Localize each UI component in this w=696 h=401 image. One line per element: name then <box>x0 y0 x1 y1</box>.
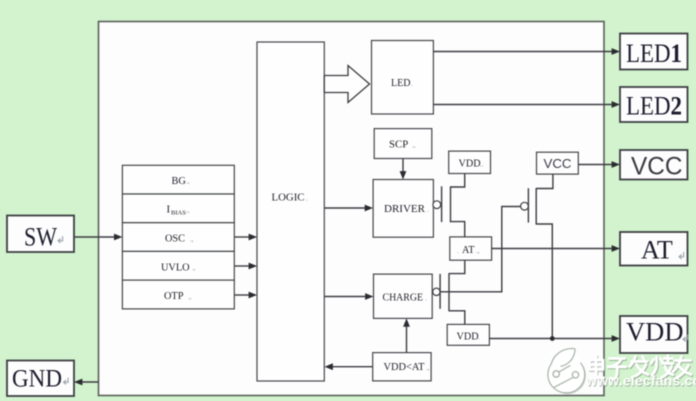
svg-text:..: .. <box>480 161 484 169</box>
svg-text:SCP: SCP <box>389 139 408 151</box>
svg-text:VDD<AT: VDD<AT <box>384 362 426 373</box>
node VDD top inner <box>449 151 491 173</box>
block LED <box>372 41 434 115</box>
svg-text:.: . <box>427 206 429 214</box>
wire SCP to DRIVER <box>402 159 404 174</box>
block CHARGE <box>374 274 433 318</box>
svg-text:.: . <box>306 195 308 203</box>
svg-text:.: . <box>425 294 427 302</box>
wire LOGIC to DRIVER <box>324 207 366 209</box>
transistor Q1 gate bubble <box>433 201 441 209</box>
block UVLO <box>122 251 234 280</box>
svg-text:.,: ., <box>192 264 196 272</box>
transistor Q1 channel <box>450 186 452 222</box>
port VCC <box>620 150 688 181</box>
port LED1 <box>620 34 688 70</box>
svg-text:VDD: VDD <box>626 318 684 347</box>
svg-text:.: . <box>457 247 459 255</box>
svg-text:GND: GND <box>12 364 62 393</box>
block LOGIC <box>257 42 324 381</box>
svg-text:.,: ., <box>186 178 190 186</box>
logo trace upper <box>559 365 571 372</box>
block DRIVER <box>373 180 433 238</box>
block BG <box>122 165 234 194</box>
wire AT node to port AT <box>492 248 613 250</box>
block SCP <box>374 129 432 159</box>
logo trace lower <box>553 377 573 387</box>
wire VDD-AT comparator to LOGIC <box>331 366 373 368</box>
svg-text:AT: AT <box>641 236 673 265</box>
transistor Q3 channel <box>535 188 537 225</box>
svg-text:I: I <box>167 204 171 216</box>
logo pad left <box>553 371 559 377</box>
svg-text:.,: ., <box>186 207 190 215</box>
transistor Q3 gate bubble <box>521 202 529 210</box>
transistor Q2 source lead to VDD node <box>449 311 465 325</box>
svg-text:LOGIC: LOGIC <box>272 192 305 204</box>
port GND <box>7 361 74 397</box>
block OTP <box>122 280 234 309</box>
wire SW to analog stack <box>74 236 115 238</box>
watermark brand characters dian zi fa shao you <box>590 356 692 381</box>
svg-text:SW: SW <box>24 223 57 252</box>
wire LOGIC to CHARGE <box>324 296 366 298</box>
svg-text:LED2: LED2 <box>626 92 682 121</box>
svg-text:BG: BG <box>172 176 187 187</box>
svg-text:AT: AT <box>462 245 475 256</box>
svg-text:.: . <box>411 80 413 88</box>
svg-text:VDD: VDD <box>457 332 479 343</box>
transistor Q2 drain lead to AT node <box>449 260 465 273</box>
svg-text:LED1: LED1 <box>626 39 682 68</box>
port VDD <box>620 316 688 353</box>
wire UVLO to LOGIC <box>234 265 250 267</box>
watermark logo circle <box>548 349 586 395</box>
wire OSC to LOGIC <box>234 236 250 238</box>
wire LED to port LED1 <box>433 51 613 53</box>
transistor Q3 source lead down to VDD rail <box>536 224 552 339</box>
svg-text:BIAS: BIAS <box>171 210 186 217</box>
wire Q2 gate to Q3 gate net <box>440 207 520 292</box>
chip outline main rectangle <box>99 22 605 396</box>
logo pad right <box>572 372 578 378</box>
svg-text:OSC: OSC <box>165 234 185 245</box>
block VDD-less-than-AT comparator <box>373 353 431 381</box>
svg-text:www.elecfans.com: www.elecfans.com <box>585 373 696 389</box>
wire LED to port LED2 <box>433 104 613 106</box>
transistor Q2 gate bubble <box>433 288 440 295</box>
logo leaf tip <box>555 356 580 363</box>
transistor Q2 channel <box>448 273 450 311</box>
wire OTP to LOGIC <box>234 294 250 296</box>
svg-text:.,: ., <box>190 236 194 244</box>
svg-text:UVLO: UVLO <box>161 262 190 273</box>
wire VDD-AT comparator to CHARGE <box>406 325 408 353</box>
svg-text:VDD: VDD <box>459 159 481 170</box>
transistor Q2 gate bar <box>439 274 441 309</box>
transistor Q1 gate bar <box>441 186 443 222</box>
svg-text:CHARGE: CHARGE <box>383 292 424 303</box>
transistor Q1 drain lead to VDD node <box>451 174 465 188</box>
wire VDD node to port VDD <box>489 338 613 340</box>
port AT <box>620 232 688 266</box>
svg-text:.,: ., <box>412 142 416 150</box>
svg-text:.,: ., <box>476 247 480 255</box>
svg-text:.,: ., <box>188 293 192 301</box>
svg-text:VCC: VCC <box>544 157 572 171</box>
transistor Q3 drain lead to VCC node <box>536 174 553 188</box>
junction dot on VDD rail <box>550 336 555 341</box>
svg-text:LED: LED <box>391 78 410 89</box>
transistor Q3 gate bar <box>527 188 529 222</box>
transistor Q1 source lead to AT node <box>451 222 465 237</box>
wire VCC node to port VCC <box>578 164 613 166</box>
wire chip to GND <box>81 381 99 383</box>
svg-text:.: . <box>478 334 480 342</box>
svg-text:.,: ., <box>426 364 430 372</box>
block arrow LOGIC to LED <box>324 66 369 103</box>
block OSC <box>122 223 234 252</box>
node AT inner <box>450 237 492 260</box>
svg-text:DRIVER: DRIVER <box>384 203 426 215</box>
block IBIAS <box>122 194 234 223</box>
node VDD bottom inner <box>447 324 489 345</box>
node VCC inner <box>537 152 579 174</box>
port LED2 <box>620 87 688 122</box>
svg-text:VCC: VCC <box>631 153 683 181</box>
port SW <box>7 216 74 253</box>
svg-text:OTP: OTP <box>164 291 184 302</box>
